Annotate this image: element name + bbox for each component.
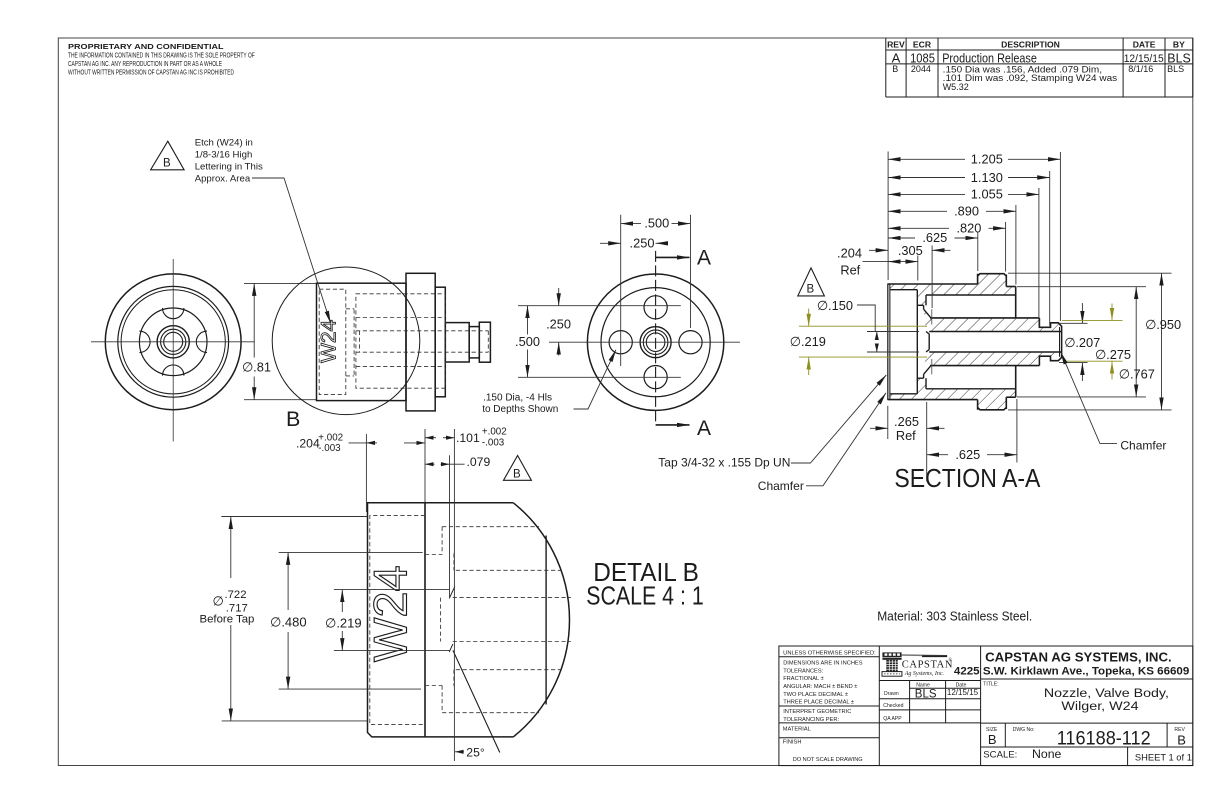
DIM_HOLES_250_LEFT: [558, 288, 560, 356]
DIM_25DEG: [455, 751, 464, 753]
svg-text:.250: .250: [546, 316, 571, 331]
svg-text:∅.150: ∅.150: [817, 298, 853, 313]
svg-text:Drawn: Drawn: [884, 691, 899, 697]
svg-text:MATERIAL: MATERIAL: [783, 727, 811, 733]
svg-text:.079: .079: [467, 455, 491, 469]
HOLES_VIEW_CENTERLINE: [549, 341, 740, 343]
svg-text:INTERPRET GEOMETRIC: INTERPRET GEOMETRIC: [783, 709, 851, 715]
PROPRIETARY_NOTE: [68, 42, 255, 77]
DIM_D207: [1059, 303, 1088, 381]
svg-text:Chamfer: Chamfer: [1120, 439, 1166, 453]
svg-text:.820: .820: [956, 221, 981, 236]
DETAILB_THREAD_TICK: [449, 587, 455, 599]
SIDE_W24_ETCH: [318, 319, 341, 363]
svg-text:.101 Dim was .092, Stamping W2: .101 Dim was .092, Stamping W24 was: [943, 73, 1118, 83]
svg-text:A: A: [892, 50, 901, 65]
DIM_890: [888, 210, 1016, 212]
FLAG_B3: [798, 268, 825, 296]
svg-text:B: B: [286, 407, 300, 431]
svg-text:DATE: DATE: [1133, 39, 1156, 49]
svg-text:TOLERANCES:: TOLERANCES:: [783, 668, 823, 674]
svg-text:FRACTIONAL ±: FRACTIONAL ±: [783, 676, 824, 682]
svg-text:TWO PLACE DECIMAL ±: TWO PLACE DECIMAL ±: [783, 692, 848, 698]
REVISION_TABLE: [886, 38, 1193, 97]
SECTION_THREAD_LINES: [931, 309, 933, 374]
DETAIL_CIRCLE_B: [272, 267, 420, 415]
DETAILB_HIDDEN: [370, 516, 571, 725]
svg-text:Production Release: Production Release: [942, 51, 1037, 66]
svg-text:.500: .500: [515, 334, 540, 349]
svg-text:.722: .722: [225, 589, 247, 601]
DIM_625_TOP: [888, 237, 978, 239]
DIM_204_TOL: [349, 442, 426, 444]
SECTION_OUTLINE: [888, 274, 1062, 410]
DIM_D219_DETAIL: [334, 590, 450, 651]
svg-text:∅.950: ∅.950: [1145, 317, 1181, 332]
DIM_1205: [888, 158, 1060, 160]
svg-text:1/8-3/16 High: 1/8-3/16 High: [195, 150, 253, 161]
SIDE_VIEW: [317, 273, 491, 411]
DIM_820: [888, 227, 1006, 229]
svg-text:-.003: -.003: [318, 443, 341, 454]
svg-text:.204: .204: [837, 246, 862, 261]
svg-text:DWG No:: DWG No:: [1013, 727, 1035, 733]
svg-text:.204: .204: [296, 436, 320, 450]
svg-text:W5.32: W5.32: [943, 82, 969, 92]
DIM_HOLES_LEFT_EXT: [518, 306, 681, 378]
svg-text:+.002: +.002: [318, 432, 343, 443]
DETAILB_OUTLINE: [368, 503, 570, 737]
SECTION_TOPDIM_EXTLINES: [888, 152, 1060, 327]
svg-text:BLS: BLS: [1167, 64, 1184, 74]
svg-text:QA APP: QA APP: [883, 716, 902, 722]
HOLES_VIEW: [587, 274, 723, 410]
DETAILB_EDGE_THICK: [424, 503, 426, 737]
SIGNOFF_TABLE_TEXT: [883, 682, 966, 722]
svg-text:∅.767: ∅.767: [1119, 367, 1155, 382]
DIM_D219_OLIVE: [799, 309, 927, 376]
DIM_D480: [279, 552, 423, 689]
svg-text:8/1/16: 8/1/16: [1128, 64, 1153, 74]
svg-text:+.002: +.002: [482, 427, 507, 438]
SIDE_VIEW_HIDDEN: [319, 289, 488, 394]
svg-text:A: A: [697, 417, 711, 440]
DIM_D150: [857, 305, 919, 352]
svg-text:DO NOT SCALE DRAWING: DO NOT SCALE DRAWING: [793, 757, 863, 763]
ETCH_NOTE: [195, 138, 263, 185]
svg-text:B: B: [988, 732, 997, 747]
svg-text:TITLE:: TITLE:: [983, 681, 998, 687]
svg-text:CAPSTAN AG SYSTEMS, INC.: CAPSTAN AG SYSTEMS, INC.: [985, 651, 1172, 665]
DETAILB_CHAMFER_25: [453, 650, 500, 752]
svg-text:BY: BY: [1173, 39, 1185, 49]
svg-text:Tap 3/4-32 x .155 Dp UN: Tap 3/4-32 x .155 Dp UN: [658, 456, 790, 470]
svg-text:THREE PLACE DECIMAL ±: THREE PLACE DECIMAL ±: [783, 700, 854, 706]
svg-text:B: B: [1177, 732, 1186, 747]
SECTION_CUT_LINE: [656, 251, 690, 425]
svg-text:ECR: ECR: [913, 39, 932, 49]
svg-text:Checked: Checked: [883, 703, 903, 709]
svg-text:W24: W24: [318, 319, 341, 363]
svg-text:-.003: -.003: [482, 438, 505, 449]
FRONT_VIEW: [91, 259, 254, 442]
svg-text:Ref: Ref: [840, 262, 860, 277]
svg-text:A: A: [697, 246, 711, 269]
HOLES_NOTE: [482, 392, 558, 415]
DETAILB_W24: [364, 565, 417, 662]
svg-text:.250: .250: [630, 236, 655, 251]
svg-text:.500: .500: [644, 216, 669, 231]
svg-text:Etch (W24) in: Etch (W24) in: [195, 138, 253, 149]
svg-text:4225 S.W. Kirklawn Ave., Topek: 4225 S.W. Kirklawn Ave., Topeka, KS 6660…: [954, 665, 1190, 677]
svg-text:.890: .890: [954, 204, 979, 219]
svg-text:DIMENSIONS ARE IN INCHES: DIMENSIONS ARE IN INCHES: [783, 661, 863, 667]
svg-text:B: B: [163, 157, 171, 169]
svg-text:Nozzle, Valve Body,: Nozzle, Valve Body,: [1044, 686, 1169, 700]
svg-text:B: B: [807, 283, 815, 295]
svg-text:2044: 2044: [911, 64, 931, 74]
svg-text:∅.219: ∅.219: [325, 616, 362, 631]
DIM_1055: [888, 193, 1039, 195]
DIM_HOLES_250_TOP: [600, 242, 668, 244]
svg-text:Ref: Ref: [896, 428, 916, 443]
svg-text:SHEET 1 of 1: SHEET 1 of 1: [1135, 752, 1192, 762]
svg-text:B: B: [892, 64, 898, 74]
svg-text:Wilger, W24: Wilger, W24: [1061, 699, 1138, 713]
SECTION_FACE_PLATE: [888, 284, 890, 400]
svg-text:∅: ∅: [213, 594, 224, 609]
svg-text:116188-112: 116188-112: [1057, 727, 1151, 749]
svg-text:∅.81: ∅.81: [242, 360, 271, 375]
svg-text:Chamfer: Chamfer: [758, 479, 804, 493]
svg-text:B: B: [513, 469, 521, 481]
DETAILB_EXT_VERT: [366, 429, 454, 761]
DIM_265_REF: [870, 402, 945, 482]
svg-text:1.055: 1.055: [971, 187, 1003, 202]
svg-text:to Depths Shown: to Depths Shown: [482, 404, 558, 415]
svg-text:Approx. Area: Approx. Area: [195, 173, 251, 184]
FLAG_B2: [504, 456, 532, 481]
svg-text:BLS: BLS: [915, 687, 937, 701]
svg-text:12/15/15: 12/15/15: [947, 688, 979, 697]
svg-text:WITHOUT WRITTEN PERMISSION OF: WITHOUT WRITTEN PERMISSION OF CAPSTAN AG…: [68, 67, 234, 76]
ETCH_LEADER: [252, 178, 331, 323]
svg-text:.305: .305: [898, 243, 923, 258]
svg-text:SECTION A-A: SECTION A-A: [894, 465, 1040, 493]
DIM_D767: [1017, 287, 1146, 397]
TITLEBLOCK_TOLERANCE_NOTES: [783, 650, 876, 762]
svg-text:25°: 25°: [466, 746, 485, 760]
DIM_D722: [221, 517, 367, 721]
svg-text:∅.275: ∅.275: [1095, 347, 1131, 362]
svg-text:SCALE 4 : 1: SCALE 4 : 1: [586, 583, 703, 611]
svg-text:.625: .625: [922, 230, 947, 245]
svg-text:FINISH: FINISH: [783, 740, 802, 746]
DIM_HOLES_500_LEFT: [527, 306, 529, 378]
SECTION_HATCH: [888, 274, 1062, 410]
svg-text:1.205: 1.205: [971, 152, 1003, 167]
svg-text:DESCRIPTION: DESCRIPTION: [1001, 39, 1060, 49]
svg-text:.101: .101: [456, 431, 480, 445]
svg-text:Before Tap: Before Tap: [200, 614, 255, 626]
DIM_204_REF: [863, 261, 918, 263]
DETAILB_CHORD: [545, 536, 547, 705]
DIM_HOLES_500_TOP: [621, 215, 691, 366]
svg-text:.625: .625: [955, 447, 980, 462]
DIM_FRONT_D81: [244, 283, 317, 399]
DIM_625_BOTTOM: [927, 399, 1017, 463]
DIM_101_TOL: [425, 437, 454, 439]
svg-text:CAPSTAN: CAPSTAN: [902, 659, 953, 670]
DIM_D950: [1008, 273, 1172, 410]
svg-text:∅.219: ∅.219: [790, 334, 826, 349]
svg-text:BLS: BLS: [1167, 50, 1191, 65]
svg-text:SCALE:: SCALE:: [983, 750, 1017, 760]
DIM_1130: [888, 177, 1050, 179]
svg-text:Material: 303 Stainless Steel.: Material: 303 Stainless Steel.: [877, 608, 1032, 623]
svg-text:®: ®: [948, 657, 952, 663]
svg-text:Lettering in This: Lettering in This: [195, 162, 263, 173]
svg-text:.265: .265: [894, 414, 919, 429]
svg-text:.150 Dia, -4 Hls: .150 Dia, -4 Hls: [483, 392, 552, 403]
svg-text:1.130: 1.130: [971, 170, 1003, 185]
svg-text:UNLESS OTHERWISE SPECIFIED:: UNLESS OTHERWISE SPECIFIED:: [783, 650, 876, 656]
svg-text:REV: REV: [887, 39, 905, 49]
svg-text:Ag Systems, Inc.: Ag Systems, Inc.: [904, 671, 944, 677]
DIM_D275_OLIVE: [1062, 304, 1123, 380]
CAPSTAN_LOGO: [882, 652, 953, 677]
svg-text:∅.480: ∅.480: [270, 614, 307, 629]
svg-text:TOLERANCING PER:: TOLERANCING PER:: [783, 717, 839, 723]
svg-text:None: None: [1032, 747, 1062, 761]
DIM_305: [869, 249, 951, 251]
TITLEBLOCK_FRAME: [779, 646, 1193, 766]
svg-text:.717: .717: [226, 602, 248, 614]
SECTION_INNER_EDGES: [890, 290, 1016, 394]
svg-text:W24: W24: [364, 565, 417, 662]
DIM_079: [425, 463, 465, 465]
FLAG_B1: [151, 141, 185, 170]
svg-text:ANGULAR: MACH ± BEND ±: ANGULAR: MACH ± BEND ±: [783, 684, 857, 690]
